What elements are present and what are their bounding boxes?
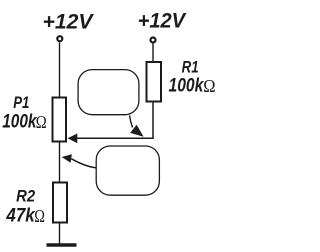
wire: R1 bottom to P1 wiper node (77, 103, 153, 139)
resistor R2 body (53, 183, 67, 223)
svg-text:Ω: Ω (203, 76, 215, 96)
wire: right terminal to R1 top (152, 44, 154, 63)
potentiometer P1 wiper arrowhead (68, 134, 78, 144)
label 47kΩ (R2 value) (6, 206, 45, 227)
svg-text:100k: 100k (2, 112, 37, 133)
wire: P1 bottom to R2 top (59, 143, 61, 182)
wire: left terminal to P1 top (59, 42, 61, 97)
wire: R2 bottom to ground (59, 224, 61, 244)
svg-text:R2: R2 (16, 187, 35, 206)
label 100kΩ (R1 value) (169, 76, 216, 97)
potentiometer P1 body (53, 98, 67, 142)
terminal +12V right (151, 38, 156, 43)
svg-text:Ω: Ω (34, 206, 45, 226)
svg-text:+12V: +12V (138, 9, 187, 33)
callout bubble 1 (78, 70, 139, 115)
ground (47, 243, 77, 247)
callout bubble 2 (96, 146, 159, 195)
svg-text:47k: 47k (6, 206, 36, 227)
svg-text:+12V: +12V (43, 9, 95, 33)
svg-text:P1: P1 (13, 93, 29, 112)
svg-text:Ω: Ω (36, 112, 47, 132)
terminal +12V left (57, 36, 62, 41)
svg-text:R1: R1 (182, 58, 199, 77)
callout arrow 2 (points to P1/R2 node) (62, 154, 96, 168)
resistor R1 body (147, 62, 162, 102)
callout arrow 1 (points to R1/wiper junction) (130, 115, 144, 137)
svg-text:100k: 100k (169, 76, 205, 97)
label 100kΩ (P1 value) (2, 112, 47, 133)
